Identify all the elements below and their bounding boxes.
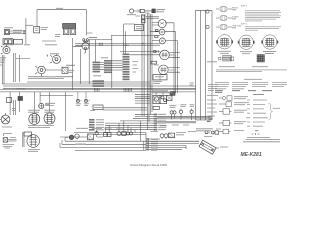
svg-text:Circuit Diagram Seoul K005: Circuit Diagram Seoul K005 (130, 163, 167, 167)
svg-text:TWIN CORD: TWIN CORD (232, 26, 242, 28)
svg-text:NOTE 2: NOTE 2 (241, 24, 247, 26)
svg-text:ME-K281: ME-K281 (241, 152, 262, 158)
svg-text:DOUBLE: DOUBLE (232, 17, 239, 19)
svg-text:NOTE 1: NOTE 1 (241, 6, 247, 8)
svg-text:WIRE: WIRE (232, 10, 236, 12)
svg-text:WIRE: WIRE (232, 19, 236, 21)
svg-text:SINGLE: SINGLE (232, 8, 238, 10)
svg-text:WIRE: WIRE (232, 28, 236, 30)
